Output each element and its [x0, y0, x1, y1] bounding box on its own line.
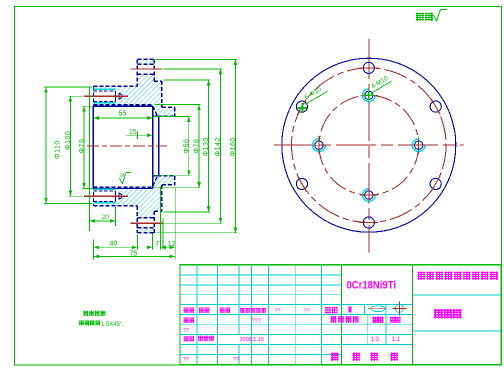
svg-text:12: 12 — [168, 241, 176, 248]
svg-text:Φ100: Φ100 — [65, 131, 72, 150]
svg-text:???: ??? — [252, 318, 261, 324]
svg-text:??: ?? — [275, 309, 281, 315]
svg-text:40: 40 — [110, 241, 118, 248]
svg-text:??: ?? — [183, 357, 189, 363]
svg-text:7: 7 — [155, 241, 159, 248]
svg-text:2008.1.15: 2008.1.15 — [240, 337, 264, 343]
svg-text:Φ56: Φ56 — [183, 139, 190, 154]
svg-text:??: ?? — [183, 328, 189, 334]
svg-text:24: 24 — [120, 173, 126, 178]
svg-text:0Cr18Ni9Ti: 0Cr18Ni9Ti — [347, 280, 397, 292]
svg-text:Φ78: Φ78 — [194, 139, 201, 154]
svg-text:75: 75 — [130, 250, 138, 257]
svg-text:Φ110: Φ110 — [55, 140, 62, 159]
svg-text:Φ79: Φ79 — [79, 139, 86, 154]
svg-text:1.5X45°.: 1.5X45°. — [101, 322, 124, 328]
svg-text:Φ130: Φ130 — [203, 137, 210, 156]
svg-text:15: 15 — [129, 129, 137, 136]
svg-text:Φ142: Φ142 — [215, 137, 222, 156]
svg-text:1.0: 1.0 — [371, 337, 380, 343]
svg-text:??: ?? — [304, 309, 310, 315]
svg-text:20: 20 — [102, 214, 110, 221]
svg-text:??: ?? — [233, 357, 239, 363]
svg-text:55: 55 — [119, 111, 127, 118]
svg-text:Φ160: Φ160 — [230, 137, 237, 156]
svg-text:1:1: 1:1 — [392, 337, 401, 343]
